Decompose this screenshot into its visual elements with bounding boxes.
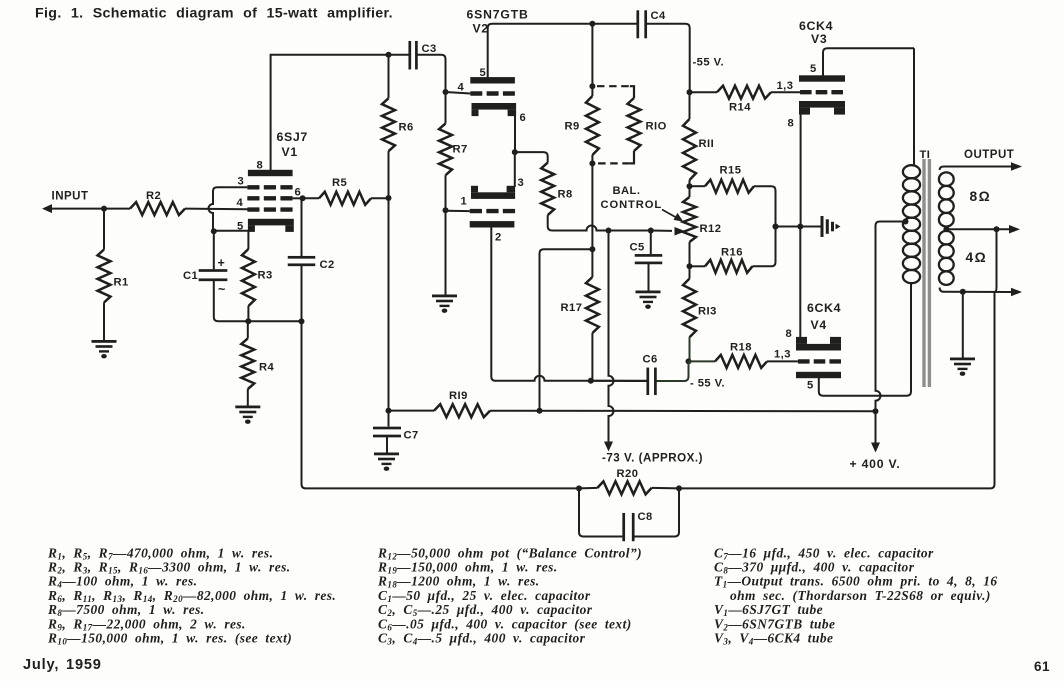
node R17 bottom junction [588, 378, 594, 384]
wire R2 to V1 grid pin4 [185, 208, 248, 211]
wire R9 node down to R17 [591, 163, 593, 277]
wire V4 plate lead to transformer [819, 283, 911, 396]
svg-text:V2: V2 [473, 22, 490, 36]
wire R15 left lead [690, 185, 706, 187]
resistor R10 [628, 98, 641, 151]
tube V1 plate [248, 170, 293, 176]
capacitor C1 [199, 269, 228, 281]
wire pin3 lead [209, 187, 248, 231]
svg-text:8: 8 [786, 328, 793, 340]
node cathode ground junction 2 [797, 224, 803, 230]
wire R9 top lead [591, 24, 593, 96]
wire secondary top to OUTPUT [940, 167, 1011, 171]
node pin6 junction [300, 195, 306, 201]
wire bottom rail right [679, 292, 995, 488]
wire C8 left branch [579, 488, 622, 536]
ground under secondary [950, 358, 975, 376]
resistor R2 [130, 202, 185, 215]
wire ground link [776, 226, 821, 228]
wire R15 right lead [754, 186, 776, 226]
svg-text:BAL.: BAL. [613, 185, 641, 197]
svg-text:4: 4 [237, 197, 244, 209]
wire R13 bottom lead [689, 337, 691, 361]
wire V2 pin2 plate lead down [491, 228, 647, 381]
ground under C7 [374, 453, 399, 471]
capacitor C2 [288, 256, 316, 266]
svg-text:R4: R4 [259, 362, 275, 374]
node R5/R6 junction [386, 195, 392, 201]
ground chassis right [821, 216, 841, 237]
wire V2 pin3 lead [514, 152, 516, 187]
svg-text:1,3: 1,3 [777, 80, 794, 92]
svg-text:RI9: RI9 [449, 390, 468, 402]
transformer core [922, 159, 931, 387]
wire R1 bottom lead [103, 303, 105, 341]
node pin6/pin3 junction [512, 149, 518, 155]
svg-text:C3​, C4​—.5 μfd., 400 v. capac: C3​, C4​—.5 μfd., 400 v. capacitor [378, 631, 586, 647]
svg-text:6CK4: 6CK4 [807, 301, 841, 315]
wire R16 right lead [752, 227, 775, 267]
wire R3 top lead [247, 232, 249, 250]
resistor R1 [98, 250, 111, 303]
wire pin6 node to R8 [515, 152, 548, 163]
svg-text:8Ω: 8Ω [970, 189, 992, 204]
wire R18 right lead [767, 360, 798, 362]
svg-text:ohm sec. (Thordarson T-22S68 o: ohm sec. (Thordarson T-22S68 or equiv.) [730, 588, 991, 603]
resistor R5 [319, 192, 371, 205]
node wiper arrow into R12 [675, 227, 686, 236]
tube V2 upper plate [470, 77, 515, 83]
wire C4 right to -55V node [646, 24, 690, 92]
wire pin6 lead [293, 197, 303, 199]
svg-text:V1: V1 [282, 145, 299, 159]
node cathode ground junction 1 [773, 224, 779, 230]
svg-text:RII: RII [699, 138, 715, 150]
svg-text:INPUT: INPUT [52, 191, 89, 203]
resistor R18 [715, 355, 767, 368]
svg-text:6SJ7: 6SJ7 [277, 130, 308, 144]
node C3/R6 junction [386, 52, 392, 58]
ground under R4 [235, 406, 260, 424]
node +400V rail junction [873, 408, 879, 414]
wire V2 pin4 lead [446, 92, 471, 94]
svg-text:C4: C4 [651, 10, 667, 22]
node R17 top junction [589, 246, 595, 252]
tube V2 lower plate [470, 221, 515, 227]
tube V1 grid row pin3 [247, 185, 292, 189]
wire primary center tap to +400V line [876, 222, 907, 412]
node R3 bottom junction [245, 318, 251, 324]
wire R10 top corner [630, 86, 634, 98]
wire R7 top lead [445, 92, 447, 124]
transformer T1 secondary upper (8 ohm) [939, 172, 954, 226]
wire R20 leads [579, 487, 679, 490]
wire R14 left lead [690, 91, 718, 93]
wire R14 right lead [771, 91, 800, 93]
wire R4 top lead [247, 321, 249, 338]
resistor R4 [241, 338, 254, 389]
resistor R9 [586, 96, 599, 155]
svg-text:8: 8 [257, 160, 264, 172]
wire R10 dashed bottom link [597, 162, 630, 164]
tube V2 upper cathode [472, 103, 517, 116]
tube V2 upper grid [470, 91, 515, 95]
wire V2 pin1 lead [446, 210, 470, 212]
transformer T1 primary winding [903, 165, 920, 283]
node INPUT arrow [42, 204, 52, 213]
wire input horizontal [50, 208, 130, 210]
wire C5 top lead [650, 231, 652, 255]
node wiper junction 1 [606, 228, 612, 234]
node mid tap junction [994, 226, 1000, 232]
ground under C5 [636, 291, 661, 309]
wire C5 bottom lead [648, 264, 650, 291]
wire wiper line to R12 [651, 230, 672, 232]
node cathode/C1 junction [211, 228, 217, 234]
capacitor C6 [646, 368, 656, 396]
wire C1 top lead [213, 231, 215, 269]
wire C6 left to R17 node [591, 380, 648, 382]
wire R19 left lead [389, 410, 435, 412]
node R11 top junction [687, 89, 693, 95]
node R9 top junction [589, 83, 595, 89]
wire C1 bottom lead [214, 280, 302, 321]
node +400V arrow [871, 443, 880, 453]
svg-text:-55 V.: -55 V. [693, 57, 725, 69]
svg-text:5: 5 [807, 380, 814, 392]
capacitor C5 [635, 254, 663, 264]
svg-text:R15: R15 [720, 165, 742, 177]
svg-text:R14: R14 [729, 102, 751, 114]
tube V1 cathode [248, 219, 294, 232]
node R7 bottom junction [443, 207, 449, 213]
resistor R11 [683, 119, 696, 180]
svg-text:4Ω: 4Ω [966, 250, 988, 265]
wire R16 left lead [690, 265, 706, 267]
wire C8 right branch [635, 488, 680, 536]
wire C6 node down [655, 361, 688, 381]
wire R6 node down to C7 [388, 198, 390, 411]
svg-text:4: 4 [458, 82, 465, 94]
svg-text:Fig. 1. Schematic diagram of 1: Fig. 1. Schematic diagram of 15-watt amp… [35, 6, 393, 22]
svg-text:C8: C8 [638, 511, 653, 523]
wire R1 top lead [103, 209, 105, 250]
wire R17 bottom lead [591, 333, 593, 381]
svg-text:2: 2 [495, 232, 502, 244]
wire R3 bottom lead [247, 306, 249, 321]
wire C7 bottom lead [386, 437, 388, 453]
wire ground lead under R7 [445, 211, 447, 295]
capacitor C7 [373, 427, 401, 438]
ground under R1 [92, 340, 117, 358]
node C7 top junction [386, 408, 392, 414]
node V2 grid pin4 junction [443, 89, 449, 95]
tube V4 plate [796, 372, 841, 378]
svg-text:~: ~ [218, 283, 226, 297]
wire R5 right lead [371, 197, 389, 199]
resistor R19 [434, 404, 490, 417]
wire V1 plate lead up [271, 55, 410, 170]
wire R11 top lead [689, 92, 691, 119]
svg-text:61: 61 [1034, 659, 1050, 674]
svg-text:R9: R9 [565, 121, 580, 133]
svg-text:July, 1959: July, 1959 [23, 657, 102, 673]
tube V3 cathode [799, 101, 845, 115]
node C4 left junction [589, 21, 595, 27]
svg-text:R20: R20 [617, 468, 639, 480]
wire R8 bottom to wiper line [548, 215, 609, 230]
svg-text:C7: C7 [404, 430, 419, 442]
potentiometer R12 [683, 197, 696, 242]
resistor R8 [541, 163, 554, 216]
wire R10 bottom corner [630, 151, 634, 163]
svg-text:- 55 V.: - 55 V. [690, 378, 725, 390]
wire R19 rail to +400V line [490, 410, 876, 413]
svg-text:C1: C1 [183, 270, 198, 282]
node R13/R18/C6 junction [686, 358, 692, 364]
node wiper/C5 junction [648, 228, 654, 234]
svg-text:V3​, V4​—6CK4 tube: V3​, V4​—6CK4 tube [714, 631, 833, 647]
node OUTPUT arrow mid [1009, 225, 1020, 234]
svg-text:-73 V. (APPROX.): -73 V. (APPROX.) [602, 452, 703, 465]
capacitor C3 [408, 41, 417, 69]
node bal pointer arrow [662, 210, 683, 222]
wire C2 node down to bottom rail [302, 321, 580, 488]
tube V4 grid [798, 359, 841, 363]
node rail/x540 junction [537, 408, 543, 414]
svg-text:1: 1 [461, 196, 468, 208]
svg-text:V4: V4 [811, 318, 828, 332]
svg-text:R2: R2 [146, 190, 161, 202]
resistor R15 [705, 180, 754, 193]
wire V2 pin6 lead down [514, 116, 516, 152]
wire R6 bottom lead [388, 151, 390, 198]
svg-text:RI3: RI3 [698, 306, 717, 318]
svg-text:R18: R18 [730, 342, 752, 354]
wire wiper node down to -73V arrow [609, 231, 614, 444]
wire R7 bottom lead [445, 175, 447, 211]
svg-text:OUTPUT: OUTPUT [964, 149, 1014, 161]
wire R6 top lead [388, 55, 390, 99]
tube V2 lower cathode [471, 186, 515, 199]
tube V3 plate [799, 75, 845, 81]
wire C3 to V2 grid node [416, 55, 445, 92]
tube V4 cathode [796, 337, 841, 351]
tube V3 grid [800, 90, 843, 94]
svg-text:+ 400 V.: + 400 V. [850, 457, 901, 471]
node -73V arrow [604, 442, 613, 452]
wire secondary ground lead [962, 292, 964, 358]
wire R17 node left to x540 riser [540, 249, 593, 410]
wire R18 left lead [689, 360, 716, 362]
tube V2 lower grid [470, 209, 515, 213]
svg-text:C2: C2 [320, 259, 335, 271]
node R20 right junction [676, 485, 682, 491]
node R20 left junction [576, 485, 582, 491]
svg-text:3: 3 [518, 177, 525, 189]
svg-text:C6: C6 [643, 354, 658, 366]
svg-text:3: 3 [238, 176, 245, 188]
resistor R7 [439, 124, 452, 176]
wire +400V arrow shaft [875, 411, 877, 444]
wire R12 bottom lead [689, 242, 691, 279]
wire mid tap down to rail riser [995, 229, 997, 292]
svg-text:R3: R3 [258, 270, 273, 282]
svg-text:R7: R7 [453, 144, 468, 156]
svg-text:R12: R12 [700, 223, 722, 235]
tube V1 grid row mid [247, 196, 292, 200]
node secondary center tap [943, 226, 949, 232]
svg-text:R17: R17 [561, 302, 583, 314]
svg-text:8: 8 [788, 118, 795, 130]
node primary center tap [903, 219, 909, 225]
wire R4 bottom lead [247, 389, 249, 406]
resistor R16 [705, 260, 752, 273]
wire R9 bottom lead [591, 155, 593, 163]
wire secondary bottom to bottom arrow [940, 288, 1011, 293]
wire secondary tap to mid arrow [946, 228, 1009, 230]
wire pin5 lead [214, 230, 249, 232]
svg-text:C5: C5 [630, 242, 645, 254]
svg-text:R6: R6 [399, 122, 414, 134]
node R9 bottom junction [589, 160, 595, 166]
svg-text:R1: R1 [114, 277, 129, 289]
svg-text:C3: C3 [422, 43, 437, 55]
resistor R17 [586, 277, 599, 333]
resistor R13 [683, 279, 696, 338]
node R11/R15 junction [687, 183, 693, 189]
wire V3 cathode lead down [800, 114, 802, 227]
node OUTPUT arrow top [1011, 162, 1022, 171]
transformer T1 secondary lower (4 ohm) [939, 231, 954, 285]
svg-text:1,3: 1,3 [774, 349, 791, 361]
svg-text:6: 6 [520, 112, 527, 124]
capacitor C8 [622, 513, 634, 541]
svg-text:+: + [218, 256, 226, 270]
node input junction [101, 206, 107, 212]
svg-text:5: 5 [810, 63, 817, 75]
svg-text:R16: R16 [721, 247, 743, 259]
wire V4 cathode lead [799, 227, 801, 342]
wire V2 plate pin5 lead [488, 24, 638, 78]
node OUTPUT arrow bottom [1011, 288, 1022, 297]
svg-text:6CK4: 6CK4 [799, 19, 833, 33]
wire C2 bottom lead [301, 266, 303, 321]
wire R5 left lead [303, 197, 319, 199]
svg-text:CONTROL: CONTROL [601, 199, 663, 211]
svg-text:RIO: RIO [646, 121, 667, 133]
resistor R14 [717, 86, 771, 99]
ground under R7 [432, 295, 457, 313]
svg-text:6SN7GTB: 6SN7GTB [467, 8, 529, 22]
node C2 bottom junction [299, 318, 305, 324]
node secondary ground junction [960, 289, 966, 295]
node R12/R16 junction [687, 263, 693, 269]
svg-text:R10​—150,000 ohm, 1 w. res. (s: R10​—150,000 ohm, 1 w. res. (see text) [47, 631, 292, 647]
wire C7 top lead [388, 411, 390, 427]
resistor R6 [382, 98, 395, 151]
capacitor C4 [636, 10, 647, 38]
resistor R3 [242, 249, 255, 306]
wire C2 top lead [301, 198, 303, 256]
wire V3 plate lead [823, 48, 914, 75]
wire wiper line to C5 node [609, 230, 651, 232]
wire R11 bottom lead [689, 180, 691, 197]
wire R10 dashed top link [597, 85, 630, 87]
svg-text:V3: V3 [811, 32, 828, 46]
svg-text:R5: R5 [332, 177, 347, 189]
resistor R20 [597, 481, 651, 494]
node R15/R16 junction [773, 224, 779, 230]
tube V1 grid row pin4 [247, 207, 292, 211]
wire V3 plate line down to primary [913, 48, 915, 166]
svg-text:R8: R8 [558, 189, 573, 201]
